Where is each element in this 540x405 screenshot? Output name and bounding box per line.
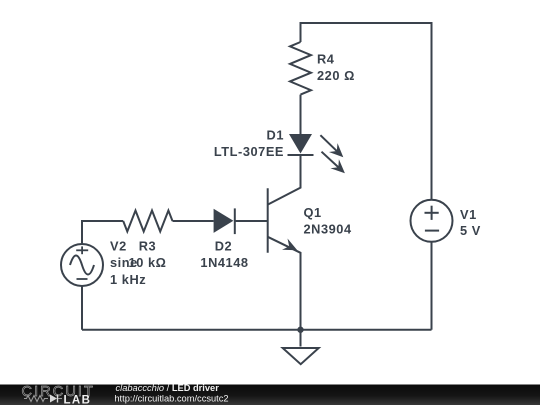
svg-text:1 kHz: 1 kHz [110,272,146,287]
svg-text:D1: D1 [267,127,284,142]
svg-text:D2: D2 [215,239,232,254]
svg-text:clabaccchio / LED driver: clabaccchio / LED driver [116,383,220,393]
svg-text:1N4148: 1N4148 [200,255,248,270]
svg-text:2N3904: 2N3904 [304,222,352,237]
svg-text:R4: R4 [317,51,335,66]
svg-text:5 V: 5 V [460,223,481,238]
svg-text:LTL-307EE: LTL-307EE [214,144,284,159]
svg-text:220 Ω: 220 Ω [317,68,355,83]
svg-text:V2: V2 [110,239,127,254]
svg-text:LAB: LAB [64,394,92,405]
svg-text:Q1: Q1 [304,205,322,220]
svg-text:R3: R3 [139,239,156,254]
svg-text:http://circuitlab.com/ccsutc2: http://circuitlab.com/ccsutc2 [114,393,228,403]
svg-text:sine: sine [110,255,138,270]
svg-text:V1: V1 [460,207,477,222]
